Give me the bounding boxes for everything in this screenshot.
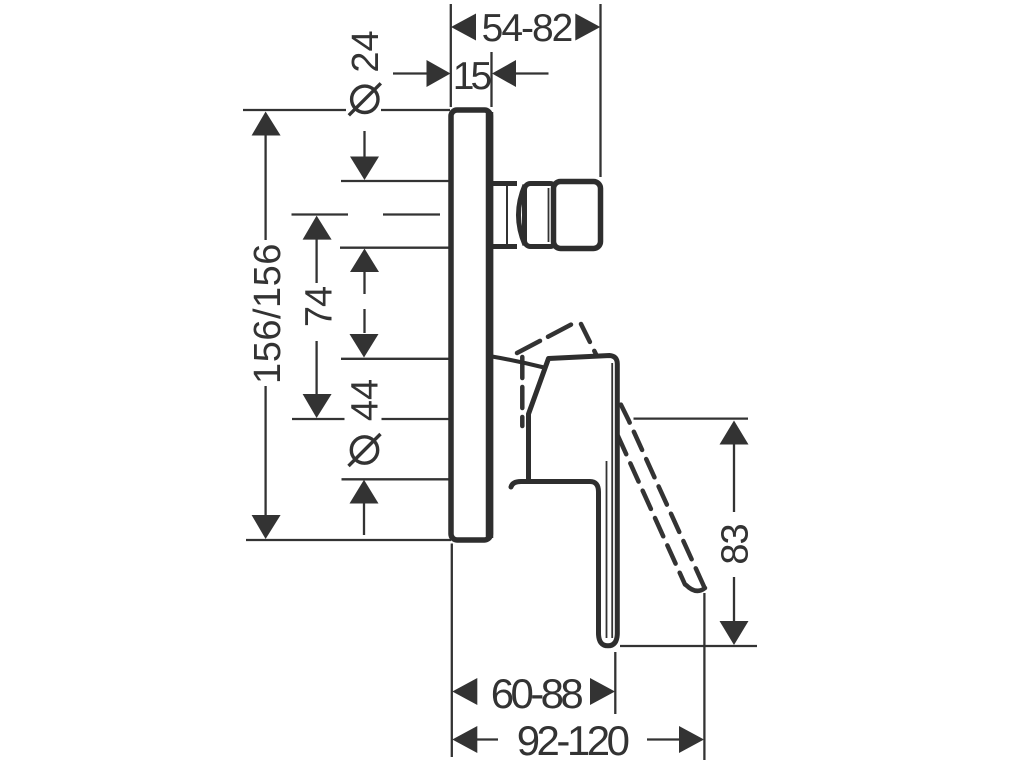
spout stub inner line (x=507) (506, 186, 508, 244)
extension line right of dim 54-82 (x=600.5) (599, 4, 601, 177)
extension line below plate (x=451.8) (451, 544, 453, 758)
lever inner thin line 2 (x=612.2) (611, 363, 613, 638)
dim 54-82 right arrowhead (575, 14, 600, 41)
svg-text:15: 15 (453, 55, 492, 98)
lever inner thin line 1 (x=606.5) (606, 461, 608, 638)
spout right block (554, 182, 601, 249)
handle bottom edge extension with hook (511, 482, 560, 488)
reference line plate top (y=110) (243, 109, 346, 111)
svg-text:60-88: 60-88 (491, 670, 583, 717)
dashed open-handle top outline (517, 323, 575, 354)
svg-text:44: 44 (345, 379, 387, 421)
dim Ø24 upper arrow (points down to spout top line) (363, 131, 365, 158)
spout stub bottom line (490, 244, 517, 249)
center line spout axis (y=214.5) (292, 213, 349, 215)
extension line below solid lever tip (x=615.3) (614, 652, 616, 714)
svg-text:54-82: 54-82 (482, 7, 572, 50)
extension line left of dim 54-82 (x=450.8) (450, 4, 452, 107)
svg-text:24: 24 (345, 30, 387, 72)
svg-text:92-120: 92-120 (517, 717, 629, 764)
diameter symbol for 44 (351, 437, 377, 463)
center line handle axis left (y=419) (292, 418, 345, 420)
svg-text:83: 83 (715, 524, 757, 564)
wall plate (rounded rect) (451, 110, 491, 540)
diameter symbol for 24 (352, 86, 378, 112)
spout stub top line (490, 181, 517, 186)
spout nose curve (519, 185, 526, 245)
dim 15 left outside arrow (393, 72, 428, 74)
dim 156/156 vertical line with arrows (x=265.6) (252, 112, 281, 136)
dim Ø44 lower arrow (points up to y=479.3) (350, 480, 379, 504)
reference line lever tip (y=646) (620, 645, 757, 647)
spout middle inner line (x=548.5) (548, 188, 550, 242)
spout middle block (525, 184, 557, 247)
svg-text:156/156: 156/156 (247, 243, 289, 384)
dim 60-88 arrows and label (y=691.5) (452, 678, 477, 705)
extension line right of dim 15 (x=491.5) (490, 52, 492, 107)
reference line Ø44 bottom (y=479.3) (342, 478, 451, 480)
svg-text:74: 74 (298, 286, 340, 327)
dim 15 right outside arrow (492, 60, 516, 87)
dim Ø24 lower arrow (points up to spout bottom line) (350, 249, 379, 273)
dashed open-lever tip cap (686, 585, 705, 591)
dim 83 vertical line with arrows (x=734) (720, 421, 749, 445)
reference line Ø44 top (y=358.8) (341, 358, 450, 360)
dim 74 vertical line with arrows (x=316.6) (303, 216, 332, 240)
reference line spout bottom (y=247.7) (340, 247, 450, 249)
dim 54-82 left arrowhead (451, 14, 476, 41)
reference line plate bottom (y=540) (246, 539, 451, 541)
dashed open-lever inner edge (618, 436, 685, 585)
extension line below dashed lever tip (x=704.4) (703, 593, 705, 760)
dim Ø44 upper arrow (points down to y=358.8) (350, 334, 379, 358)
collar arc from plate to handle (492, 357, 544, 368)
dashed open-handle left edge (vertical dashes x=522.3) (520, 357, 525, 426)
plate right edge accent (486, 112, 494, 538)
reference line spout top (y=181) (341, 180, 450, 182)
dim 92-120 arrows and label (y=739.5) (452, 726, 477, 753)
handle body with lever (white filled) (529, 356, 618, 646)
center line handle axis right (y=419) (634, 417, 749, 419)
